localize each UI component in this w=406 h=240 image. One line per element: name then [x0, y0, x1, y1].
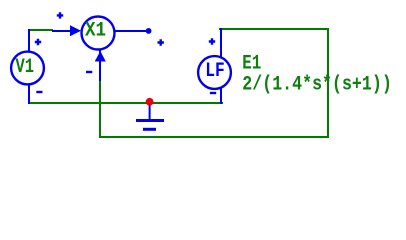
- svg-text:2/(1.4*s*(s+1)): 2/(1.4*s*(s+1)): [242, 74, 391, 97]
- svg-text:LF: LF: [205, 60, 225, 83]
- svg-text:V1: V1: [16, 56, 35, 79]
- svg-text:X1: X1: [85, 19, 106, 42]
- svg-text:E1: E1: [242, 53, 261, 76]
